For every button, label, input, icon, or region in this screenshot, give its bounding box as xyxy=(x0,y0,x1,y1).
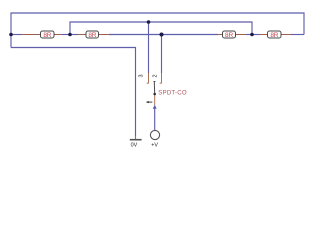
svg-text:SPDT-CO: SPDT-CO xyxy=(158,90,187,97)
switch SW1 SPDT-CO xyxy=(138,73,186,109)
resistor R3 (8R) xyxy=(218,31,246,39)
wire: row segment R1 to R2 through node B xyxy=(62,34,78,36)
node A (left rail / row junction) xyxy=(9,33,13,37)
wire: switch common to +V terminal xyxy=(154,108,156,130)
wire: left rail + top rail + right rail xyxy=(11,13,304,48)
node center (row / pin 2 junction) xyxy=(160,33,164,37)
actuator arrow xyxy=(148,101,152,103)
node C (row / bypass junction right) xyxy=(250,33,254,37)
resistor R4 (8R) xyxy=(260,31,292,39)
svg-text:3: 3 xyxy=(138,74,144,77)
node B (row / bypass junction) xyxy=(68,33,72,37)
common pin stub xyxy=(154,95,156,105)
lever (centre-off position) xyxy=(154,82,156,95)
svg-text:+V: +V xyxy=(151,143,158,149)
node on bypass rail feeding pin 3 xyxy=(147,20,151,24)
lever pivot dot xyxy=(153,93,156,96)
svg-text:0V: 0V xyxy=(131,143,138,149)
resistor R2 (8R) xyxy=(78,31,109,39)
ground (0V) xyxy=(130,136,142,149)
wire: drop from center node to switch pin 2 xyxy=(161,35,163,74)
wire: drop from bypass rail to switch pin 3 xyxy=(148,22,150,73)
pin 3 stub xyxy=(147,73,149,83)
svg-text:2: 2 xyxy=(152,74,158,77)
wire: row segment R3 to R4 through node C xyxy=(246,34,260,36)
svg-text:8R: 8R xyxy=(225,32,233,39)
svg-text:8R: 8R xyxy=(270,32,278,39)
svg-text:8R: 8R xyxy=(43,32,51,39)
wire: row segment R2 to R3 through center node xyxy=(109,34,218,36)
wire: row segment R4 to right rail xyxy=(291,34,304,36)
wire: lower-left run to ground drop xyxy=(11,48,136,137)
resistor R1 (8R) xyxy=(22,31,63,39)
+V terminal xyxy=(150,130,159,148)
svg-text:8R: 8R xyxy=(88,32,96,39)
wire: bypass rail (node B up, across, down to node C) xyxy=(70,22,252,35)
wire: row segment node A to R1 xyxy=(11,34,22,36)
pin 2 stub xyxy=(160,73,162,83)
